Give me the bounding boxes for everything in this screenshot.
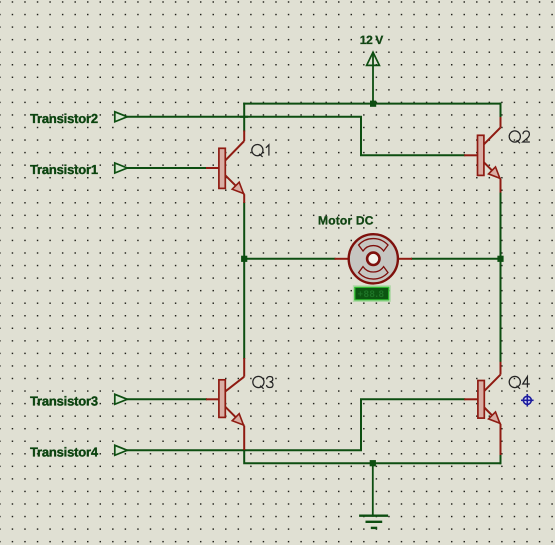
wire right node to Q4 collector [500, 259, 502, 362]
transistor Q1 [206, 131, 269, 204]
wire 12V stem [372, 53, 374, 104]
origin marker [521, 394, 534, 407]
svg-text:Transistor2: Transistor2 [30, 111, 98, 126]
transistor Q4 [464, 362, 530, 455]
svg-text:Transistor4: Transistor4 [30, 444, 99, 459]
terminal Transistor4 [30, 444, 127, 459]
terminal Transistor2 [30, 111, 127, 126]
power terminal 12V [360, 33, 383, 65]
motor DC [318, 213, 412, 283]
motor readout +88.8 [353, 286, 390, 302]
wire Q3 emitter to bottom rail [244, 450, 500, 463]
wire Transistor3 [127, 398, 206, 400]
wire rail to Q2 collector [500, 104, 502, 117]
transistor Q3 [206, 358, 273, 450]
wire motor left [244, 258, 334, 260]
transistor Q2 [464, 117, 530, 193]
wire left vertical rail-to-Q1 [243, 104, 245, 131]
junction left node [241, 256, 247, 262]
wire Transistor1 [127, 167, 206, 169]
wire left node to Q3 collector [243, 259, 245, 358]
junction right node [497, 256, 503, 262]
wire motor right [412, 258, 501, 260]
wire Transistor2 to corner [127, 117, 464, 156]
junction 12V/top-rail [370, 101, 376, 107]
svg-text:12 V: 12 V [360, 33, 383, 47]
wire top rail [244, 103, 500, 105]
terminal Transistor1 [30, 162, 127, 177]
svg-text:Transistor1: Transistor1 [30, 162, 98, 177]
wire Q2 emitter to right node [500, 193, 502, 259]
svg-text:Transistor3: Transistor3 [30, 393, 98, 408]
wire Q1 emitter to left node [243, 203, 245, 259]
ground [360, 516, 387, 528]
wire ground stem [372, 463, 374, 516]
svg-text:Motor DC: Motor DC [318, 213, 374, 227]
svg-text:+88.8: +88.8 [358, 289, 385, 300]
junction ground/bottom-rail [370, 460, 376, 466]
wire Transistor2 crossing overlay [240, 116, 248, 118]
wire Q4 emitter to bottom rail [500, 455, 502, 463]
wire Transistor4 to Q4 base [127, 399, 464, 450]
terminal Transistor3 [30, 393, 127, 408]
